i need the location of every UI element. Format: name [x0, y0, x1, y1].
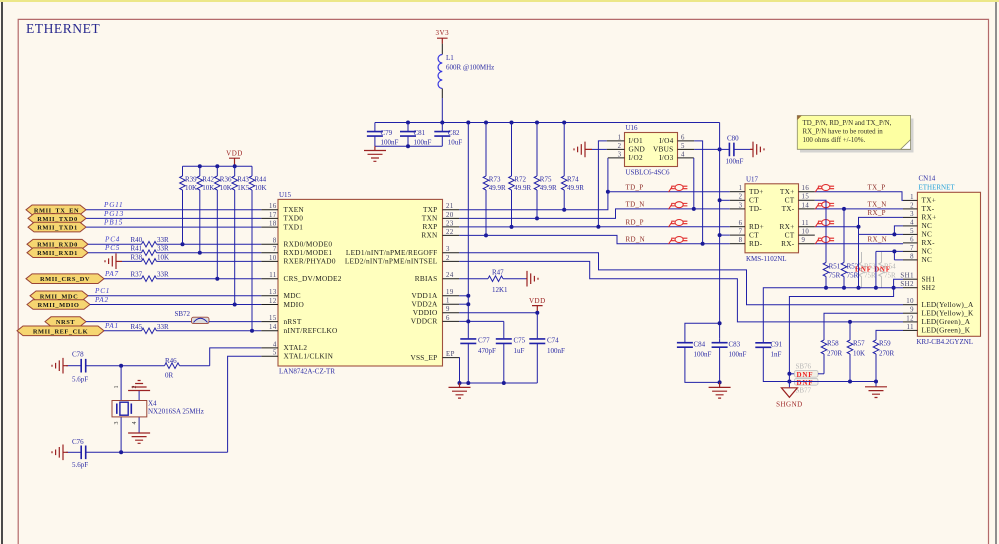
svg-text:3: 3: [910, 211, 914, 218]
wire XTAL2 route: [210, 348, 262, 366]
svg-text:RMII_RXD1: RMII_RXD1: [37, 250, 78, 257]
svg-text:PC4: PC4: [104, 236, 120, 244]
svg-text:RXN: RXN: [421, 231, 438, 240]
resistor R38: [131, 253, 170, 264]
wire VDDCR row: [459, 320, 504, 322]
wire RXER row: [157, 260, 262, 262]
CN14 pin SH1: [900, 273, 935, 284]
svg-text:22: 22: [446, 229, 454, 236]
wire TD_P row: [608, 191, 730, 193]
svg-text:VSS_EP: VSS_EP: [410, 353, 437, 362]
svg-text:4: 4: [132, 422, 138, 425]
svg-text:TXD1: TXD1: [284, 222, 304, 231]
junction R52 top: [842, 207, 846, 211]
wire RXP row to RD_P: [459, 226, 730, 228]
junction VDD/C74: [535, 311, 539, 315]
svg-text:PG11: PG11: [103, 201, 123, 209]
note box: [797, 116, 913, 153]
U17 pin 16 TX+: [780, 185, 815, 196]
U17 pin 8 RD-: [730, 237, 763, 248]
junction rail R36: [215, 164, 219, 168]
svg-text:100nF: 100nF: [414, 139, 432, 147]
inductor L1: [438, 44, 494, 98]
wire L1 to rail: [441, 98, 443, 123]
svg-text:R46: R46: [165, 357, 177, 365]
svg-text:16: 16: [802, 185, 810, 192]
solder bridge SB72: [175, 310, 210, 324]
junction rail VDD: [233, 164, 237, 168]
junction R59 bottom: [874, 380, 878, 384]
wire SB77 rail: [789, 381, 876, 383]
svg-text:R43: R43: [237, 176, 249, 184]
svg-text:10uF: 10uF: [448, 139, 463, 147]
junction VBUS / 3V3 column: [718, 147, 722, 151]
wire CT pin7 to 3V3 column: [720, 234, 730, 236]
diff pair icon TX_P: [815, 185, 834, 193]
wire EP: [458, 358, 460, 383]
junction rail C82/L1: [440, 121, 444, 125]
wire 3V3 top rail: [375, 122, 720, 124]
svg-text:USBLC6-4SC6: USBLC6-4SC6: [626, 169, 670, 177]
CN14 pin 11 LED(Green)_K: [903, 324, 971, 335]
svg-text:NX2016SA 25MHz: NX2016SA 25MHz: [148, 408, 204, 416]
U17 pin 14 TX-: [782, 202, 815, 213]
svg-text:16: 16: [269, 203, 277, 210]
svg-text:ETHERNET: ETHERNET: [26, 21, 100, 36]
svg-text:C78: C78: [72, 351, 84, 359]
wire RX_P row: [815, 217, 903, 226]
wire TX_N row: [815, 208, 903, 210]
U17 pin 2 CT: [730, 194, 759, 205]
wire LED2 route to CN14 pin12: [459, 261, 903, 322]
svg-text:DNF: DNF: [797, 379, 814, 387]
wire PG13 row: [86, 217, 261, 219]
U15 pin 7 RXD1: [261, 246, 332, 257]
svg-text:I/O2: I/O2: [629, 153, 643, 162]
wire C78 row: [66, 365, 81, 367]
svg-text:2: 2: [446, 255, 450, 262]
capacitor C83: [712, 338, 747, 382]
svg-text:1: 1: [618, 134, 622, 141]
U15 pin 5 XTAL1: [261, 350, 333, 361]
svg-text:9: 9: [446, 306, 450, 313]
junction R52 bottom: [842, 286, 846, 290]
capacitor C81: [400, 123, 432, 147]
wire VDD2A stub: [459, 303, 468, 305]
svg-text:5.6pF: 5.6pF: [72, 461, 88, 469]
junction caps C81 bottom: [406, 144, 410, 148]
resistor R45: [131, 323, 170, 334]
junction NC7 link rail: [874, 286, 878, 290]
svg-text:R38: R38: [131, 253, 143, 261]
svg-text:RD_N: RD_N: [626, 236, 645, 244]
svg-text:X4: X4: [148, 400, 157, 408]
svg-text:VDDCR: VDDCR: [411, 317, 438, 326]
port RMII_MDIO: [27, 300, 90, 310]
svg-text:4: 4: [910, 219, 914, 226]
svg-text:R41: R41: [131, 245, 143, 253]
CN14 pin 1 TX+: [903, 194, 936, 205]
U16 pin 1 I/O1: [607, 134, 643, 145]
U15 pin 9 VDDIO: [413, 306, 459, 317]
svg-text:11: 11: [802, 220, 810, 227]
svg-text:PB15: PB15: [103, 219, 123, 227]
wire NC bracket pins 7-8: [876, 251, 903, 260]
wire RXD1 row left: [88, 252, 142, 254]
svg-text:RBIAS: RBIAS: [415, 274, 438, 283]
junction R73/RXN: [484, 233, 488, 237]
power SHGND: [776, 388, 803, 409]
U15 pin 6 VDDCR: [411, 315, 459, 326]
U15 pin 1 VDD2A: [412, 298, 460, 309]
svg-text:7: 7: [273, 246, 277, 253]
svg-text:R58: R58: [827, 340, 839, 348]
port RMII_TXD0: [28, 214, 86, 224]
svg-text:I/O3: I/O3: [659, 153, 673, 162]
svg-text:19: 19: [446, 289, 454, 296]
svg-text:PC1: PC1: [94, 287, 110, 295]
U15 pin 12 MDIO: [261, 298, 304, 309]
junction CT2: [718, 198, 722, 202]
svg-text:RMII_CRS_DV: RMII_CRS_DV: [40, 276, 90, 283]
ground under R59: [865, 387, 887, 398]
svg-text:1nF: 1nF: [771, 350, 782, 358]
wire REF_CLK row right: [157, 330, 262, 332]
junction NC link rail: [857, 286, 861, 290]
svg-text:0R: 0R: [165, 371, 174, 379]
svg-text:2: 2: [739, 194, 743, 201]
svg-text:U15: U15: [279, 191, 292, 199]
svg-text:10K: 10K: [157, 253, 169, 261]
junction rail VDD column: [466, 121, 470, 125]
svg-text:PA1: PA1: [104, 322, 119, 330]
svg-text:nINT/REFCLKO: nINT/REFCLKO: [284, 326, 338, 335]
capacitor C75: [496, 321, 526, 383]
wire U16 pin3 to TD_P: [607, 158, 609, 192]
svg-text:17: 17: [269, 212, 277, 219]
wire NRST row left: [86, 321, 192, 323]
ground above X4: [128, 381, 150, 391]
U15 pin 20 TXN: [422, 212, 459, 223]
svg-text:R37: R37: [131, 271, 143, 279]
svg-text:4: 4: [273, 341, 277, 348]
wire RXD1 row right: [157, 252, 262, 254]
svg-text:4: 4: [681, 151, 685, 158]
svg-text:C75: C75: [514, 337, 526, 345]
U15 pin 19 VDD1A: [412, 289, 460, 300]
U15 pin 11 CRS_DV: [261, 272, 341, 283]
port RMII_TX_EN: [26, 205, 86, 215]
capacitor C74: [529, 313, 565, 383]
wire NC7 link down to rail: [875, 251, 877, 287]
wire U16 pin1 to RD_P: [598, 141, 606, 227]
svg-text:L1: L1: [446, 54, 454, 62]
svg-text:C77: C77: [478, 337, 490, 345]
svg-text:C76: C76: [72, 438, 84, 446]
svg-text:LED1/nINT/nPME/REGOFF: LED1/nINT/nPME/REGOFF: [346, 248, 438, 257]
ground left of U16: [574, 142, 592, 158]
wire TXP row: [459, 192, 608, 210]
svg-text:18: 18: [269, 221, 277, 228]
svg-text:NC: NC: [922, 255, 933, 264]
junction R43/MDIO: [233, 303, 237, 307]
port RMII_RXD0: [27, 239, 88, 249]
diff pair icon RX_P: [815, 220, 834, 228]
svg-text:20: 20: [446, 212, 454, 219]
U16 pin 6 I/O4: [659, 134, 694, 145]
U17 pin 3 TD-: [730, 202, 762, 213]
svg-text:600R @100MHz: 600R @100MHz: [446, 64, 494, 72]
U15 pin 2 LED2: [345, 255, 459, 266]
svg-text:RX_N: RX_N: [868, 235, 887, 243]
svg-text:11: 11: [269, 272, 277, 279]
resistor R59: [873, 330, 903, 386]
svg-text:33R: 33R: [157, 236, 169, 244]
svg-text:3: 3: [446, 246, 450, 253]
svg-text:PG13: PG13: [103, 210, 124, 218]
svg-text:RX_P: RX_P: [868, 209, 886, 217]
wire CT pin2 to 3V3 column: [720, 199, 730, 201]
svg-text:R36: R36: [220, 176, 232, 184]
ground right of C80: [750, 142, 764, 158]
svg-text:TD_P: TD_P: [626, 184, 644, 192]
svg-text:49.9R: 49.9R: [514, 184, 531, 192]
junction U16 pin6 / RD_N: [701, 242, 705, 246]
U15 pin 16 TXEN: [261, 203, 304, 214]
svg-text:1uF: 1uF: [514, 347, 525, 355]
junction rail R72: [510, 121, 514, 125]
svg-text:R45: R45: [131, 323, 143, 331]
svg-text:C74: C74: [547, 337, 559, 345]
svg-text:LED(Green)_K: LED(Green)_K: [922, 326, 971, 335]
svg-text:R44: R44: [255, 176, 267, 184]
svg-text:TD_P/N, RD_P/N and TX_P/N,: TD_P/N, RD_P/N and TX_P/N,: [803, 120, 892, 127]
svg-text:SB72: SB72: [175, 310, 191, 318]
svg-text:270R: 270R: [879, 350, 895, 358]
svg-text:2: 2: [910, 202, 914, 209]
svg-text:ETHERNET: ETHERNET: [919, 184, 956, 192]
wire RXN row jog to RD_N: [459, 235, 730, 243]
svg-text:33R: 33R: [157, 271, 169, 279]
U16 pin 5 VBUS: [653, 143, 694, 154]
resistor R43: [232, 166, 250, 304]
svg-text:10: 10: [906, 298, 914, 305]
svg-text:9: 9: [910, 307, 914, 314]
resistor R40: [131, 236, 170, 247]
svg-text:R59: R59: [879, 340, 891, 348]
resistor R72: [509, 123, 532, 227]
junction rail C81: [406, 121, 410, 125]
capacitor C91: [755, 340, 789, 381]
svg-text:14: 14: [802, 202, 810, 209]
wire LED1 route to CN14 pin10: [459, 253, 903, 305]
power VDD mid: [529, 297, 546, 313]
wire TXN row jog to TD_N: [459, 209, 730, 219]
right gray edge line: [995, 2, 997, 544]
diff pair icon RX_N: [815, 237, 834, 245]
ground below X4: [128, 433, 150, 443]
junction X4 pin3 / C76 row: [119, 450, 123, 454]
U17 pin 10 CT: [785, 229, 815, 240]
capacitor C82: [434, 123, 462, 147]
svg-text:R74: R74: [567, 176, 579, 184]
resistor R46: [165, 357, 210, 379]
power 3V3: [436, 29, 450, 44]
svg-text:33R: 33R: [157, 323, 169, 331]
port NRST: [45, 317, 86, 327]
wire RXD0 row right: [157, 243, 262, 245]
svg-text:12: 12: [269, 298, 277, 305]
diff pair icon TD_P: [669, 185, 688, 193]
svg-text:TX_N: TX_N: [868, 201, 887, 209]
junction R44/nINT: [250, 329, 254, 333]
svg-text:15: 15: [269, 315, 277, 322]
svg-text:SH2: SH2: [922, 283, 936, 292]
junction VDD2A: [466, 302, 470, 306]
resistor R37: [131, 271, 170, 282]
svg-text:VDD: VDD: [529, 297, 546, 305]
svg-text:5: 5: [273, 350, 277, 357]
svg-text:1: 1: [446, 298, 450, 305]
svg-text:24: 24: [446, 272, 454, 279]
wire R38 left stub: [122, 260, 142, 262]
svg-text:6: 6: [446, 315, 450, 322]
svg-text:C83: C83: [729, 340, 741, 348]
resistor R44: [249, 166, 266, 331]
ground under C83/C84: [709, 382, 731, 398]
wire pullup rail: [183, 165, 253, 167]
svg-text:RMII_MDIO: RMII_MDIO: [38, 302, 80, 309]
wire SH2 rail: [763, 288, 903, 343]
svg-text:R40: R40: [131, 236, 143, 244]
CN14 pin SH2: [900, 281, 935, 292]
svg-text:XTAL1/CLKIN: XTAL1/CLKIN: [284, 352, 334, 361]
svg-text:100nF: 100nF: [726, 158, 744, 166]
svg-text:3: 3: [114, 422, 120, 425]
junction NC4/5 bracket: [892, 232, 896, 236]
svg-text:EP: EP: [446, 351, 455, 358]
svg-text:100nF: 100nF: [547, 347, 565, 355]
svg-text:MDC: MDC: [284, 291, 301, 300]
resistor R53 75R DNF: [859, 252, 876, 288]
resistor R39: [180, 166, 197, 244]
junction X4 pin1 / C78 row: [119, 364, 123, 368]
port RMII_CRS_DV: [26, 274, 104, 284]
wire SH1 jog: [789, 279, 903, 374]
op IC U15 LAN8742A body: [278, 191, 443, 376]
svg-text:10K: 10K: [853, 350, 865, 358]
svg-text:7: 7: [739, 229, 743, 236]
svg-text:5: 5: [681, 143, 685, 150]
solder bridge SB76: [789, 363, 824, 379]
junction TD_P branch: [606, 190, 610, 194]
junction C83 top: [718, 321, 722, 325]
svg-text:1: 1: [739, 185, 743, 192]
wire CRS_DV row right: [157, 278, 262, 280]
svg-text:11: 11: [906, 324, 914, 331]
wire MDC row: [88, 295, 261, 297]
svg-text:R39: R39: [185, 176, 197, 184]
wire 3V3 vertical column: [719, 123, 721, 339]
wire VBUS to 3V3 column: [694, 148, 719, 150]
svg-text:TXD0: TXD0: [284, 214, 304, 223]
U15 pin EP VSS_EP: [410, 351, 459, 362]
U16 pin 4 I/O3: [659, 151, 694, 162]
svg-text:RMII_TXD1: RMII_TXD1: [37, 225, 77, 232]
svg-text:100 ohms diff +/-10%.: 100 ohms diff +/-10%.: [803, 137, 866, 144]
CN14 pin 3 RX+: [903, 211, 937, 222]
svg-text:U17: U17: [746, 175, 759, 183]
wire SB vertical lower: [788, 374, 790, 388]
port RMII_REF_CLK: [17, 326, 104, 336]
wire VDDIO row: [459, 312, 537, 314]
svg-text:C81: C81: [414, 129, 426, 137]
U17 pin 6 RD+: [730, 220, 764, 231]
wire NRST row right: [209, 321, 261, 323]
diff pair icon RD_P: [669, 220, 688, 228]
svg-text:SH2: SH2: [900, 281, 914, 288]
wire MDIO row: [90, 304, 261, 306]
resistor R54 75R DNF: [879, 252, 896, 288]
junction VDD1A: [466, 294, 470, 298]
U15 pin 14 nINT: [261, 324, 337, 335]
svg-text:6: 6: [681, 134, 685, 141]
junction gnd rail C75: [502, 381, 506, 385]
junction rail R75: [535, 121, 539, 125]
svg-text:RD-: RD-: [749, 239, 763, 248]
wire TX_P row: [815, 192, 903, 201]
svg-text:270R: 270R: [827, 350, 843, 358]
junction R39/RXD0: [181, 242, 185, 246]
junction SB vertical SB76 row: [787, 372, 791, 376]
U17 pin 1 TD+: [730, 185, 764, 196]
svg-text:10K: 10K: [185, 184, 197, 192]
svg-text:15: 15: [802, 194, 810, 201]
capacitor C76: [72, 438, 88, 469]
CN14 pin 10 LED(Yellow)_A: [903, 298, 974, 309]
U15 pin 23 RXP: [423, 220, 460, 231]
svg-text:VDD: VDD: [226, 150, 243, 158]
U15 pin 10 RXER: [261, 255, 336, 266]
IC U16 USBLC6 body: [625, 124, 678, 177]
CN14 pin 5 NC: [903, 228, 932, 239]
junction VDDCR column: [466, 319, 470, 323]
svg-text:R72: R72: [514, 176, 526, 184]
svg-text:49.9R: 49.9R: [489, 184, 506, 192]
ground at C76: [52, 445, 68, 461]
transformer U17 KMS-1102NL body: [745, 175, 799, 263]
wire NC bracket pins 4-5: [859, 226, 904, 235]
svg-text:100nF: 100nF: [729, 350, 747, 358]
port RMII_TXD1: [28, 222, 86, 232]
wire CT pin15 to R51: [815, 200, 826, 262]
resistor R73: [483, 123, 506, 236]
svg-text:3: 3: [739, 202, 743, 209]
svg-text:10K: 10K: [220, 184, 232, 192]
top yellow strip: [0, 0, 999, 2]
U17 pin 11 RX+: [779, 220, 814, 231]
capacitor C77: [460, 337, 496, 384]
wire U16 pin6 to RD_N: [694, 141, 702, 244]
svg-text:nRST: nRST: [284, 317, 302, 326]
svg-text:PA2: PA2: [94, 296, 109, 304]
svg-text:NRST: NRST: [56, 319, 75, 326]
CN14 pin 12 LED(Green)_A: [903, 315, 971, 326]
ground at C78: [52, 358, 68, 374]
svg-text:DNF: DNF: [797, 371, 814, 379]
left dark edge line: [1, 2, 3, 544]
wire U16 gnd stub: [592, 148, 607, 150]
